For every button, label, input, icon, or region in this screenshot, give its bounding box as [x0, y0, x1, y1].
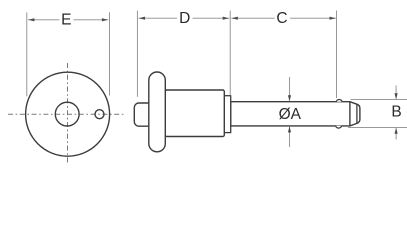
dimension E arrow left [28, 18, 34, 21]
dimension B extension line top [351, 98, 407, 100]
dimension E extension line left [26, 12, 28, 96]
dimension A arrow line top [289, 77, 291, 101]
dimension A arrow line bottom [289, 127, 291, 147]
dimension D extension line left [136, 11, 138, 97]
tip end face line [356, 104, 358, 123]
dimension C extension line right [336, 11, 338, 99]
dimension B arrow bottom [395, 128, 397, 139]
dimension B arrow top [395, 86, 397, 99]
svg-text:B: B [391, 104, 401, 121]
front view small lanyard hole [95, 110, 104, 119]
horizontal centerline of front view [8, 113, 126, 115]
dimension D line [139, 17, 230, 19]
dimension E arrow right [102, 18, 108, 21]
dimension C arrow right [330, 17, 336, 20]
vertical centerline of front view [67, 63, 69, 164]
svg-text:ØA: ØA [279, 106, 302, 123]
chamfer start line [349, 102, 351, 126]
release button [134, 103, 156, 126]
dimension C line [231, 17, 336, 19]
dimension C arrow left [232, 17, 238, 20]
handle flange [149, 72, 166, 152]
front view inner circle (plunger) [55, 102, 79, 126]
locking ball bottom [336, 126, 342, 128]
dimension D label [177, 11, 193, 25]
shaft with chamfered tip [231, 102, 360, 126]
dimension D arrow right [223, 17, 229, 20]
dimension C label [275, 11, 291, 25]
locking ball top [336, 100, 342, 102]
dimension E label [60, 13, 74, 27]
svg-text:D: D [179, 10, 190, 27]
dimension E extension line right [109, 12, 111, 95]
svg-text:E: E [61, 11, 71, 28]
svg-text:C: C [276, 10, 287, 27]
step collar [224, 96, 230, 133]
front view outer circle (head) [26, 72, 110, 156]
dimension D / C shared extension line [229, 11, 231, 96]
dimension B extension line bottom [348, 127, 407, 129]
body cylinder [165, 90, 224, 137]
dimension D arrow left [139, 17, 145, 20]
dimension E line [28, 19, 108, 21]
